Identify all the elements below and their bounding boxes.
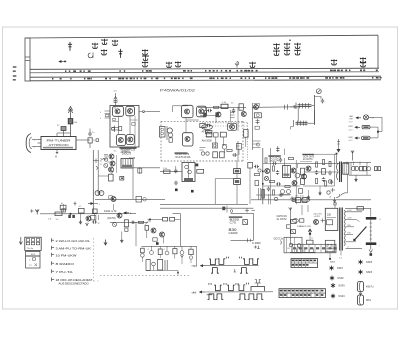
gram input Y [30, 209, 39, 214]
cluster transistor T410 [306, 166, 311, 171]
svg-text:FM: FM [350, 118, 353, 120]
lower cluster pair [280, 190, 291, 195]
wf2 n4 [248, 294, 256, 300]
svg-text:20-170: 20-170 [314, 214, 323, 216]
stage2 gnd [120, 231, 123, 242]
wf1 n2 [240, 268, 248, 274]
IF filter block 2 [220, 132, 226, 146]
strip transistor group 3x2 r2c3 [295, 49, 300, 55]
DIN socket table [25, 237, 41, 250]
capacitor C1 [68, 119, 78, 125]
resistor R310 [163, 168, 170, 174]
svg-text:4: 4 [148, 249, 149, 251]
wf1 tick below [234, 269, 236, 272]
aerial drop to OT wire [336, 153, 338, 164]
legend row 2 [52, 246, 92, 251]
svg-text:C1000: C1000 [229, 231, 239, 235]
stage2 drop [135, 222, 137, 246]
legend row 4 [52, 261, 76, 266]
dashed chassis line [100, 274, 190, 276]
resistor R203 [239, 104, 243, 110]
wf2 tick d [246, 283, 249, 284]
cluster parts col 2 [322, 159, 326, 182]
bias boxes [295, 196, 307, 203]
psu top loop [345, 207, 371, 217]
ferrite rod aerial L301 [293, 103, 315, 110]
wf2 tick c [235, 284, 238, 285]
oscillator trimmers [255, 119, 260, 129]
det transformer S2 [182, 163, 195, 182]
wf2 wide bracket [251, 280, 265, 292]
switch row upper [200, 148, 210, 156]
aerial plug socket [26, 134, 37, 153]
volume pot P301 [109, 171, 114, 181]
strip dot [289, 40, 290, 41]
wire tuner output [76, 139, 90, 141]
stab lower box [281, 237, 303, 253]
speaker feed Y [351, 151, 354, 161]
psu diode D401 [243, 220, 248, 225]
wf2 n2 [216, 294, 224, 300]
svg-text:3 AM-PU TO-RM-UK: 3 AM-PU TO-RM-UK [56, 246, 92, 250]
svg-text:(OA79): (OA79) [107, 217, 116, 220]
svg-text:NSF7: NSF7 [337, 267, 344, 270]
psu top wire [231, 209, 256, 241]
selector table header [26, 251, 40, 256]
svg-text:NA M: NA M [330, 260, 335, 263]
part text block pre [122, 149, 136, 160]
resistor R1 [57, 125, 66, 137]
wf2 tick a [208, 284, 211, 285]
WK labels [192, 266, 196, 295]
IF interstage network [112, 126, 122, 133]
svg-text:FM-TUNER: FM-TUNER [47, 139, 72, 143]
demod transistor stage T105 [182, 105, 194, 117]
svg-text:C75: C75 [230, 221, 237, 225]
wire mid riser [133, 167, 142, 199]
AM bottom cluster 1 [212, 143, 217, 148]
preamp bus wire [95, 198, 165, 200]
bus star component [292, 198, 296, 202]
ferrite rod aerial L302 [291, 110, 315, 130]
scale lamp LA2 [355, 125, 370, 128]
wf2 u1 [214, 285, 222, 291]
stab text 2 [274, 237, 284, 241]
svg-text:AUS-DESCONECTADO: AUS-DESCONECTADO [59, 282, 90, 286]
svg-text:C 2000: C 2000 [252, 241, 261, 245]
af cluster wiring [256, 155, 300, 204]
OT wires [343, 162, 371, 181]
upper right cluster ext [325, 180, 336, 199]
FM dipole antenna A1 [68, 107, 72, 138]
ratio detector dashed enclosure [161, 121, 243, 161]
speaker resistor [360, 166, 367, 170]
pilot lamp LA1 [356, 115, 375, 120]
svg-text:NSF4: NSF4 [339, 295, 346, 298]
strip transistor symbol T-i [175, 61, 180, 67]
input series resistor [55, 212, 62, 221]
schematic title P45WA/01/02 [160, 89, 195, 93]
input drops [79, 213, 99, 226]
right half bus [251, 199, 371, 201]
legend lamp 6 [358, 270, 372, 275]
stage2 transistor T306 [117, 213, 122, 218]
af cluster extra parts [258, 158, 303, 202]
stab transistor T501 [314, 219, 326, 225]
psu elco C402 [252, 241, 261, 249]
spk row comp 3 [158, 246, 162, 258]
svg-text:4.5k: 4.5k [300, 195, 304, 197]
lamp wire right 2 [370, 127, 382, 138]
lamp row labels 1 [349, 115, 354, 124]
speaker cap C405 [351, 162, 359, 175]
preamp transistor T303 [104, 155, 117, 174]
waveform row2 baseline [200, 291, 274, 293]
legend dashed link [94, 238, 101, 281]
psu big label [229, 228, 239, 235]
legend row 3 [52, 253, 77, 258]
AM mixer oval [202, 124, 213, 133]
strip transistor group 3x2 r2c1 [274, 50, 279, 56]
oscillator coil [254, 113, 261, 118]
secondary tap 4 [346, 233, 354, 235]
secondary tap 6 [346, 247, 363, 249]
lamp row labels 2 [349, 126, 354, 131]
speaker jack [367, 162, 371, 175]
demod part list text [175, 152, 191, 159]
stab text [277, 214, 288, 221]
resistor comb band [292, 244, 337, 253]
strip capacitor symbol C-b [118, 49, 122, 58]
ground det [191, 190, 194, 193]
psu bottom wire [231, 238, 254, 242]
eq cap stack 2 [234, 179, 241, 185]
demod transistor stage T106 [197, 106, 207, 117]
wires out to OT [298, 162, 361, 173]
resistor R311 [197, 169, 204, 173]
oscillator bottom mesh [253, 141, 261, 148]
long bus A [160, 204, 254, 208]
long bus B [40, 213, 181, 215]
small sq node [196, 164, 199, 167]
switch row resistor [227, 150, 237, 157]
input junction [70, 213, 72, 215]
svg-text:2x OC72: 2x OC72 [277, 217, 288, 221]
svg-text:6.3V: 6.3V [348, 210, 353, 212]
resistor R201 [221, 102, 228, 108]
svg-text:OC: OC [114, 151, 118, 153]
svg-text:7 4a 5a: 7 4a 5a [27, 248, 35, 250]
strip transistor symbol T-j [250, 62, 255, 68]
secondary tap 2 [346, 218, 360, 222]
IF transistor stage T101 [113, 106, 124, 116]
legend row 5 [52, 269, 73, 274]
demod transistor stage T108 [182, 133, 193, 146]
svg-text:220: 220 [327, 214, 332, 217]
driver RC 1 [273, 166, 280, 175]
svg-text:AT7650/30: AT7650/30 [49, 144, 70, 147]
car antenna socket [315, 89, 322, 125]
AM rail right marks [285, 104, 299, 121]
svg-text:4.7: 4.7 [79, 206, 82, 208]
switch contact K1 [93, 159, 102, 170]
FM IF module outer box [110, 106, 139, 148]
spk row comp 2 [148, 246, 154, 254]
svg-text:AM: AM [203, 125, 208, 129]
capacitor C301 [321, 99, 324, 104]
driver RC 2 [269, 181, 281, 186]
wf2 u3 [238, 285, 246, 291]
wire det row [160, 170, 182, 172]
second IF-output cluster text [302, 154, 314, 161]
strip capacitor symbol C-a [68, 42, 72, 51]
preamp RC pair [136, 196, 146, 202]
svg-text:4: 4 [164, 249, 165, 251]
aux transistor T308 [160, 232, 165, 237]
strip transistor group 3x2 r1c2 [284, 43, 289, 49]
waveform row2 label [193, 293, 197, 295]
wf2 flat seg [207, 294, 213, 296]
legend fuse 1 [358, 282, 375, 292]
AM bottom cluster 3 [236, 144, 241, 155]
bus junction parts [222, 206, 233, 213]
aux transistor T307 [151, 228, 156, 233]
strip transistor symbol T-b [102, 39, 107, 45]
preamp input grid [101, 158, 107, 161]
driver transistor T401 [265, 169, 270, 174]
AM rail components [207, 109, 212, 112]
mains switch lever [353, 227, 366, 242]
M feed drop [60, 203, 66, 212]
svg-text:NSF3: NSF3 [339, 285, 346, 288]
input cap [62, 209, 66, 212]
eq cap stack 1 [234, 169, 241, 174]
strip row labels left margin [13, 66, 17, 80]
lamp row labels 3 [349, 137, 354, 142]
wire aerial drop [337, 139, 340, 152]
output transistor T402 [291, 168, 300, 178]
tone cap right [248, 162, 253, 204]
top strip frame [26, 35, 378, 68]
aux row comps [148, 217, 181, 221]
svg-text:2 LW-LO-GO-LW-OL: 2 LW-LO-GO-LW-OL [56, 239, 91, 243]
aux box small [153, 238, 159, 245]
transistor T202 [241, 112, 246, 117]
strip transistor symbol T-f [143, 55, 148, 61]
cluster parts col 3 [328, 161, 331, 183]
strip symbol small s [235, 62, 239, 68]
legend lamp 2 [330, 276, 344, 281]
strip voltage readings row 1 [65, 69, 378, 72]
cluster wires right [300, 154, 337, 199]
resistor R204 [205, 107, 207, 115]
AF interstage transformer [121, 159, 133, 169]
wf2 u2 [227, 285, 235, 291]
wf1 u1 [209, 259, 217, 265]
bus to transformer drop [334, 200, 336, 208]
preamp diode D301 [104, 164, 108, 168]
output transformer core [337, 162, 342, 183]
wire IF out squiggle [139, 110, 147, 112]
AM cage extra blobs [200, 112, 235, 117]
connector bar bottom [366, 242, 381, 247]
resistor R202 [214, 106, 219, 108]
mains bottom leads [329, 251, 343, 260]
aux arrow label [124, 212, 132, 215]
selector table body [26, 256, 40, 268]
svg-text:STABILIS 20V: STABILIS 20V [297, 225, 312, 228]
resistor R105 [205, 130, 212, 136]
af bus riser [262, 148, 264, 204]
aux top wire [180, 214, 182, 247]
input net resistor 3 [79, 206, 100, 225]
cluster parts col 1 [315, 162, 318, 184]
secondary tap 3 [346, 225, 355, 227]
main left bus wire [92, 150, 94, 214]
transistor T203 boxed [228, 123, 237, 130]
strip transistor symbol T-a [92, 43, 97, 49]
svg-text:OC72 2x: OC72 2x [274, 237, 284, 241]
waveform row1 baseline [201, 265, 259, 267]
ext speaker terminals [375, 167, 381, 171]
stab box 2 [286, 225, 290, 228]
svg-text:7 PU-TA: 7 PU-TA [56, 270, 73, 274]
spk row comp 1 [141, 248, 145, 262]
svg-text:MS1: MS1 [366, 299, 372, 302]
spk row comp 5 [173, 246, 177, 258]
legend arrow down [19, 237, 22, 244]
wf2 n5 [256, 294, 264, 300]
spk row comp 6 [180, 246, 184, 264]
IF transistor stage T102 [126, 106, 135, 116]
svg-text:+12V: +12V [314, 216, 321, 218]
wf1 n1 [211, 268, 219, 274]
stab verticals [302, 205, 310, 240]
out risers [271, 146, 285, 155]
wire across preamp [133, 167, 160, 169]
wf2 n1 [208, 294, 216, 300]
wire tuner bottom pin [55, 150, 58, 159]
legend lamp 3 [331, 283, 345, 288]
stage2 labels [104, 210, 117, 213]
stab box 3 [291, 230, 296, 234]
svg-text:AM 2000: AM 2000 [202, 140, 213, 143]
svg-text:2xOC75: 2xOC75 [122, 151, 132, 155]
svg-text:NSF2: NSF2 [338, 277, 345, 280]
preamp transistor T304 [109, 196, 116, 210]
speaker row bus [142, 246, 197, 266]
svg-text:B30: B30 [229, 228, 237, 232]
cluster transistor T411 [302, 174, 307, 179]
node FM out [96, 139, 99, 142]
stab res 1 [291, 220, 296, 224]
output transformer secondary box [343, 163, 349, 174]
strip transistor group 3x2 r2c2 [284, 49, 289, 55]
IF transistor stage T103 [117, 135, 126, 146]
arrow down left of row [104, 240, 107, 246]
junction dots af [262, 171, 264, 185]
svg-text:OC170 AF116: OC170 AF116 [175, 156, 191, 159]
AM bottom cluster 2 [222, 145, 227, 154]
jack drop to chassis [177, 271, 179, 276]
mains fuse box [325, 240, 335, 252]
capacitor C310 [174, 166, 177, 173]
speaker drop wire [333, 174, 348, 202]
preamp transistor T301 [109, 151, 117, 160]
aux drop [163, 237, 165, 244]
svg-text:22: 22 [98, 223, 100, 225]
strip transistor symbol T-e [142, 49, 147, 55]
stab mid row [293, 219, 312, 229]
strip pointer arrow [59, 61, 66, 63]
mid row junk 1 [254, 165, 260, 186]
cap C311 [174, 181, 177, 192]
connector pins mid [370, 220, 372, 242]
antenna feed to strip [114, 91, 118, 106]
IF input coupling [100, 111, 110, 120]
svg-text:NSF6: NSF6 [366, 271, 373, 274]
resistor R205 [206, 133, 212, 137]
det col small parts [267, 187, 275, 205]
ratio det transformer S1 [160, 127, 166, 138]
strip left column box [25, 38, 30, 81]
svg-text:+8: +8 [329, 197, 331, 199]
preamp left rail [98, 150, 108, 196]
aux fan wires [145, 219, 151, 225]
capacitor C105 [200, 123, 211, 127]
feedback circle X [264, 176, 268, 180]
legend row 6 [52, 277, 93, 285]
svg-text:M: M [55, 156, 57, 159]
bus oval label [300, 195, 310, 202]
switch col riser [237, 141, 240, 160]
wire tuner top to antenna [57, 133, 71, 137]
legend fuse 2 [358, 292, 372, 305]
transformer secondary windings [344, 210, 345, 246]
wf1 ticks b [239, 257, 242, 258]
pickup arrow PU [74, 202, 101, 207]
wf2 n3 [239, 294, 247, 300]
oscillator transistor T204 [253, 103, 260, 150]
ratio det transistor T107 [167, 126, 173, 142]
stage2 res col [124, 220, 128, 232]
AM label text [202, 140, 213, 143]
legend lamp 4 [331, 294, 345, 299]
strip transistor symbol T-k [331, 59, 336, 65]
stab small box [307, 238, 314, 244]
IF module part list text [120, 147, 137, 154]
FM tuner block [34, 137, 76, 150]
stage2 label OA79 [107, 217, 116, 220]
legend row 1 [52, 238, 91, 243]
phase splitter transformer [283, 166, 291, 178]
wf2 tick b [223, 284, 226, 285]
preamp transistor T302 [110, 161, 115, 166]
connector bar top [366, 217, 382, 221]
bus riser pair [259, 188, 265, 200]
measurement table 2 [279, 289, 326, 298]
AM tuner dashed cage [202, 123, 248, 160]
strip transistor symbol T-h [166, 62, 171, 68]
capacitor C2 [88, 129, 95, 137]
switch row caps [213, 152, 224, 158]
wire IF to demod box [147, 111, 160, 113]
wire into demod top [173, 106, 189, 112]
secondary tap 1 [346, 210, 363, 212]
legend lamp 5 [358, 260, 372, 265]
transistor T201 [216, 112, 221, 117]
strip voltage readings row 2 [52, 77, 382, 80]
